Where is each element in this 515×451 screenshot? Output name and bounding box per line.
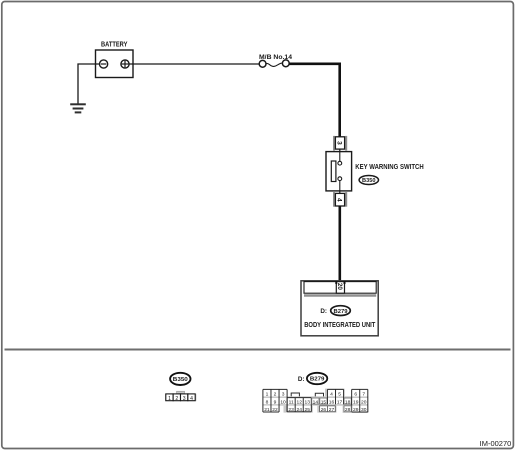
svg-text:30: 30 bbox=[361, 407, 367, 413]
B279 keyway bracket over pins 11-12 bbox=[291, 393, 299, 396]
svg-text:16: 16 bbox=[329, 399, 335, 405]
svg-text:6: 6 bbox=[354, 391, 357, 397]
svg-text:22: 22 bbox=[272, 407, 278, 413]
B279 housing gray band bbox=[263, 396, 369, 405]
B279 housing tab below pins 26-27 bbox=[317, 406, 336, 413]
svg-text:15: 15 bbox=[321, 399, 327, 405]
B279 pins 26-27 cells bbox=[320, 406, 336, 412]
svg-text:IM-00270: IM-00270 bbox=[480, 441, 512, 448]
svg-text:10: 10 bbox=[280, 399, 286, 405]
svg-text:3: 3 bbox=[183, 396, 186, 402]
connector view B350 pinout bbox=[165, 391, 196, 402]
svg-text:D:: D: bbox=[320, 308, 327, 315]
svg-text:B350: B350 bbox=[173, 377, 188, 383]
separator rule bbox=[5, 349, 511, 351]
unit pin 20 bbox=[336, 281, 344, 293]
svg-text:28: 28 bbox=[345, 407, 351, 413]
battery B1 bbox=[96, 41, 134, 77]
wire battery minus to ground bbox=[78, 64, 100, 104]
wire switch body to pin 4 bbox=[339, 191, 341, 194]
svg-text:17: 17 bbox=[337, 399, 343, 405]
svg-text:21: 21 bbox=[264, 407, 270, 413]
wire battery plus to fuse bbox=[129, 63, 259, 65]
svg-text:B350: B350 bbox=[362, 178, 376, 184]
B350 pin 2 bbox=[173, 394, 180, 401]
thick wire fuse to switch bbox=[289, 64, 339, 137]
svg-text:14: 14 bbox=[313, 399, 319, 405]
connector view B279 pinout bbox=[263, 389, 369, 413]
key warning switch body U1 bbox=[326, 152, 352, 191]
connector view B350 oval bbox=[170, 373, 190, 385]
svg-text:7: 7 bbox=[362, 391, 365, 397]
svg-text:29: 29 bbox=[353, 407, 359, 413]
svg-text:KEY WARNING SWITCH: KEY WARNING SWITCH bbox=[355, 164, 423, 171]
svg-text:26: 26 bbox=[321, 407, 327, 413]
svg-text:2: 2 bbox=[274, 391, 277, 397]
key warning switch connector pin 3 bbox=[333, 136, 347, 151]
B279 cells row 1 white bbox=[263, 390, 287, 397]
B279 cells row 3 white bbox=[263, 406, 279, 412]
svg-text:19: 19 bbox=[353, 399, 359, 405]
key warning switch connector pin 4 bbox=[333, 192, 347, 207]
svg-text:BATTERY: BATTERY bbox=[101, 41, 128, 48]
svg-text:D:: D: bbox=[298, 376, 305, 383]
svg-text:3: 3 bbox=[282, 391, 285, 397]
svg-text:9: 9 bbox=[274, 399, 277, 405]
unit connector strip bbox=[304, 282, 376, 294]
B279 housing tab above pins 4-5 bbox=[325, 389, 345, 397]
B279 block pins 4-5 / 16-17 outline bbox=[327, 388, 343, 390]
B279 housing tab below pins 23-25 bbox=[284, 406, 313, 413]
svg-text:BODY INTEGRATED UNIT: BODY INTEGRATED UNIT bbox=[304, 322, 376, 329]
B279 pin 15 cell bbox=[320, 398, 327, 404]
B279 housing tab below pins 28-30 bbox=[343, 406, 369, 413]
svg-text:23: 23 bbox=[288, 407, 294, 413]
svg-text:4: 4 bbox=[336, 198, 343, 202]
svg-text:4: 4 bbox=[330, 391, 333, 397]
svg-text:20: 20 bbox=[361, 399, 367, 405]
svg-text:20: 20 bbox=[336, 283, 343, 291]
B279 block pins 1-3 / 8-10 / 21-22 outline bbox=[263, 388, 287, 390]
B279 pin 28 cell bbox=[344, 406, 351, 412]
B279 pin 14 cell bbox=[312, 398, 319, 404]
svg-text:27: 27 bbox=[329, 407, 335, 413]
connector oval B279 (unit) bbox=[331, 306, 351, 316]
thick wire switch to body integrated unit bbox=[338, 206, 341, 281]
battery minus terminal bbox=[100, 60, 108, 68]
svg-text:25: 25 bbox=[305, 407, 311, 413]
svg-text:12: 12 bbox=[296, 399, 302, 405]
connector view D: B279 oval bbox=[298, 373, 327, 384]
ground bbox=[70, 104, 86, 112]
connector oval B350 (switch) bbox=[359, 176, 378, 185]
wire pin3 to switch body bbox=[339, 149, 341, 152]
svg-text:B279: B279 bbox=[310, 377, 325, 383]
svg-text:3: 3 bbox=[336, 141, 343, 145]
fuse M/B No.14 bbox=[259, 54, 292, 67]
svg-text:18: 18 bbox=[345, 399, 351, 405]
svg-text:4: 4 bbox=[190, 396, 193, 402]
svg-text:1: 1 bbox=[168, 396, 171, 402]
battery plus terminal bbox=[121, 60, 129, 68]
B279 block pins 6-7 / 19-20 / 29-30 outline bbox=[352, 388, 368, 390]
B279 pin 18 cell bbox=[344, 398, 351, 404]
svg-text:1: 1 bbox=[266, 391, 269, 397]
svg-text:11: 11 bbox=[289, 399, 294, 405]
svg-text:24: 24 bbox=[296, 407, 302, 413]
B350 pin 4 bbox=[188, 394, 195, 401]
B350 pin 3 bbox=[181, 394, 188, 401]
B279 cells row 2 white bbox=[263, 398, 368, 404]
B350 pin 1 bbox=[166, 394, 173, 401]
svg-text:8: 8 bbox=[266, 399, 269, 405]
svg-text:B279: B279 bbox=[334, 309, 348, 315]
body integrated unit box bbox=[301, 281, 378, 336]
svg-text:2: 2 bbox=[175, 396, 178, 402]
svg-text:13: 13 bbox=[305, 399, 311, 405]
B279 block pins 11-13 / 23-25 outline bbox=[287, 397, 311, 399]
B279 keyway bracket over pins 14-15 bbox=[315, 393, 323, 396]
svg-text:5: 5 bbox=[338, 391, 341, 397]
